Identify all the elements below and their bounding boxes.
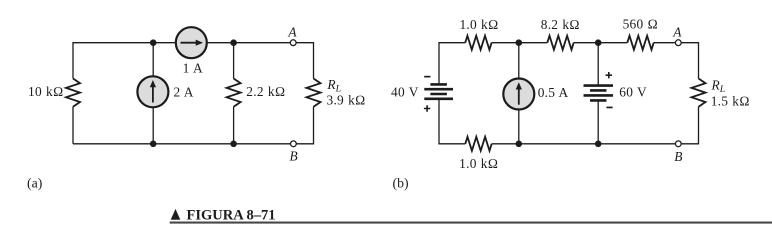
wire: (a) top rail <box>73 42 314 44</box>
wire: (a) right branch bottom <box>313 107 315 145</box>
wire: (b) top rail seg4 <box>654 42 699 44</box>
wire: (a) left branch bottom <box>72 107 74 144</box>
svg-text:2 A: 2 A <box>174 84 194 99</box>
svg-text:1 A: 1 A <box>183 61 203 76</box>
wire: (b) left branch top <box>438 42 440 84</box>
junction dot (a) bottom-mid <box>230 141 237 148</box>
svg-text:1.5 kΩ: 1.5 kΩ <box>711 94 750 109</box>
svg-text:8.2 kΩ: 8.2 kΩ <box>541 17 580 32</box>
svg-text:(a): (a) <box>27 176 42 192</box>
svg-text:2.2 kΩ: 2.2 kΩ <box>246 84 285 99</box>
wire: (b) bottom rail seg1 <box>439 143 465 145</box>
terminal A (b) <box>675 40 681 46</box>
resistor 1.0 kΩ top <box>465 36 491 50</box>
wire: (b) right branch top <box>698 42 700 78</box>
wire: (a) 2.2k branch bottom <box>233 107 235 144</box>
svg-text:B: B <box>674 149 682 164</box>
figure caption triangle <box>171 209 181 220</box>
svg-text:FIGURA 8–71: FIGURA 8–71 <box>187 208 276 224</box>
wire: (a) 2.2k branch top <box>233 43 235 79</box>
junction dot (a) top-left <box>150 39 157 46</box>
junction dot (b) top-left <box>516 39 523 46</box>
junction dot (b) bottom-left <box>516 141 523 148</box>
svg-text:0.5 A: 0.5 A <box>538 85 569 100</box>
svg-text:60 V: 60 V <box>619 85 647 100</box>
resistor RL (b) <box>692 79 706 107</box>
polarity minus (60 V) <box>606 107 612 109</box>
resistor 1.0 kΩ bottom <box>465 137 491 151</box>
wire: (b) left branch bottom <box>438 99 440 144</box>
wire: (a) right branch top <box>313 42 315 78</box>
wire: (a) bottom rail <box>73 143 314 145</box>
resistor RL (a) <box>307 79 321 107</box>
polarity plus (60 V) <box>606 72 612 78</box>
terminal B (a) <box>291 141 297 147</box>
wire: (b) source branch (0.5 A) <box>518 43 520 144</box>
junction dot (a) top-mid <box>230 39 237 46</box>
wire: (b) top rail seg3 <box>574 42 628 44</box>
wire: (b) top rail seg1 <box>439 42 465 44</box>
resistor 10 kΩ <box>66 79 80 107</box>
resistor 2.2 kΩ <box>227 79 241 107</box>
polarity minus (40 V) <box>424 76 430 78</box>
svg-text:1.0 kΩ: 1.0 kΩ <box>459 156 498 171</box>
figure caption rule <box>170 222 772 224</box>
wire: (b) bottom rail seg2 <box>492 143 699 145</box>
svg-text:560 Ω: 560 Ω <box>623 17 658 32</box>
wire: (a) source branch (2 A) <box>152 43 154 144</box>
svg-text:40 V: 40 V <box>391 85 419 100</box>
wire: (b) 60V branch top <box>597 43 599 86</box>
battery 60 V <box>584 86 614 101</box>
svg-text:(b): (b) <box>393 176 409 192</box>
svg-text:10 kΩ: 10 kΩ <box>28 84 63 99</box>
svg-text:3.9 kΩ: 3.9 kΩ <box>327 93 366 108</box>
junction dot (b) top-right <box>595 39 602 46</box>
svg-text:RL: RL <box>711 78 726 96</box>
polarity plus (40 V) <box>424 105 430 111</box>
current source 2 A <box>137 76 168 107</box>
current source 1 A <box>176 27 207 58</box>
resistor 560 Ω <box>627 36 653 50</box>
junction dot (b) bottom-right <box>595 141 602 148</box>
wire: (b) top rail seg2 <box>492 42 548 44</box>
terminal B (b) <box>675 141 681 147</box>
svg-text:B: B <box>290 148 298 163</box>
wire: (b) right branch bottom <box>698 107 700 145</box>
terminal A (a) <box>290 40 296 46</box>
current source 0.5 A <box>503 79 534 110</box>
svg-text:A: A <box>287 24 297 39</box>
svg-text:A: A <box>672 24 682 39</box>
resistor 8.2 kΩ <box>547 36 573 50</box>
junction dot (a) bottom-left <box>150 141 157 148</box>
wire: (a) left branch top <box>72 42 74 78</box>
battery 40 V <box>424 84 453 98</box>
svg-text:1.0 kΩ: 1.0 kΩ <box>459 17 498 32</box>
wire: (b) 60V branch bottom <box>597 100 599 143</box>
